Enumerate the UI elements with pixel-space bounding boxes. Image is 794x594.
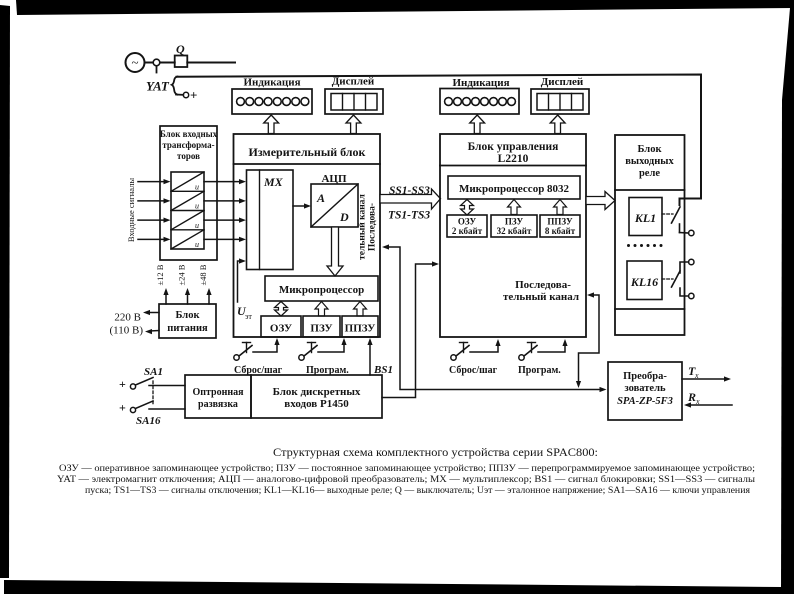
svg-text:±24 В: ±24 В bbox=[177, 264, 187, 285]
svg-text:SA1: SA1 bbox=[144, 366, 163, 378]
microprocessor 8032 box bbox=[448, 176, 580, 199]
svg-text:ОЗУ: ОЗУ bbox=[270, 323, 292, 335]
svg-text:Q: Q bbox=[176, 42, 185, 56]
contact KL16 bbox=[689, 259, 694, 264]
arrow up to Displej 1 bbox=[346, 115, 361, 134]
wire Rx in bbox=[689, 404, 732, 406]
double block arrow 8032-OZU bbox=[461, 200, 474, 216]
svg-text:зователь: зователь bbox=[624, 383, 666, 394]
transformer matrix bbox=[171, 172, 204, 249]
block arrow SS/TS to control unit bbox=[380, 189, 441, 209]
svg-text:АЦП: АЦП bbox=[321, 173, 347, 185]
svg-text:±48 В: ±48 В bbox=[198, 264, 208, 285]
svg-text:8 кбайт: 8 кбайт bbox=[545, 226, 576, 236]
pushbutton Reset/step (measuring) bbox=[234, 355, 239, 360]
svg-text:±12 В: ±12 В bbox=[155, 264, 165, 285]
svg-text:u: u bbox=[195, 183, 199, 192]
pushbutton Program (control) bbox=[519, 355, 524, 360]
block discrete inputs P1450 bbox=[251, 375, 382, 418]
svg-text:ППЗУ: ППЗУ bbox=[547, 217, 573, 227]
block transducer SPA-ZP-5F3 bbox=[608, 362, 682, 420]
wire Q to right bbox=[187, 62, 235, 64]
dots between relays bbox=[627, 244, 663, 247]
svg-text:тельный канал: тельный канал bbox=[503, 291, 579, 303]
reference voltage U_et feed bbox=[238, 261, 241, 302]
multiplexer MX bbox=[247, 170, 294, 270]
wire node to Q bbox=[160, 62, 175, 64]
wire YAT bottom terminal bbox=[176, 94, 183, 96]
svg-text:Преобра-: Преобра- bbox=[623, 371, 667, 382]
switch Q bbox=[175, 56, 188, 68]
svg-text:YAT: YAT bbox=[146, 79, 170, 94]
svg-text:торов: торов bbox=[177, 151, 200, 161]
svg-text:Оптронная: Оптронная bbox=[192, 387, 244, 398]
svg-text:L2210: L2210 bbox=[498, 153, 529, 165]
svg-text:32 кбайт: 32 кбайт bbox=[497, 226, 532, 236]
arrow up to Displej 2 bbox=[550, 115, 565, 134]
microprocessor box (measuring) bbox=[265, 276, 378, 301]
block optocoupler isolation bbox=[185, 375, 251, 418]
mechanical link dashed bbox=[152, 381, 154, 406]
wire YAT top rail bbox=[177, 75, 702, 206]
svg-text:Последова-: Последова- bbox=[368, 203, 378, 251]
svg-text:питания: питания bbox=[167, 323, 208, 334]
svg-text:выходных: выходных bbox=[625, 156, 674, 167]
svg-text:2 кбайт: 2 кбайт bbox=[452, 226, 483, 236]
wire discrete inputs to control unit bbox=[382, 264, 434, 398]
block power supply bbox=[159, 304, 216, 338]
svg-text:+: + bbox=[190, 88, 197, 103]
svg-text:u: u bbox=[195, 240, 199, 249]
svg-text:развязка: развязка bbox=[198, 399, 238, 410]
block arrow up 8032 from PZU bbox=[508, 200, 521, 215]
svg-text:Блок: Блок bbox=[638, 144, 663, 155]
relay KL16 bbox=[627, 261, 662, 300]
block arrow up to MCU from PPZU bbox=[354, 302, 367, 317]
svg-text:ПЗУ: ПЗУ bbox=[310, 323, 332, 335]
svg-text:пуска; TS1—TS3 — сигналы отклю: пуска; TS1—TS3 — сигналы отключения; KL1… bbox=[85, 486, 751, 496]
svg-text:SA16: SA16 bbox=[136, 415, 161, 427]
input arrows x4 bbox=[138, 179, 171, 242]
wire control unit serial to bus bbox=[587, 292, 594, 297]
svg-text:TS1-TS3: TS1-TS3 bbox=[388, 210, 430, 222]
svg-text:SPA-ZP-5F3: SPA-ZP-5F3 bbox=[617, 396, 673, 407]
block arrow ADC to MCU bbox=[327, 227, 343, 276]
svg-text:Дисплей: Дисплей bbox=[541, 76, 584, 88]
pushbutton Program (measuring) bbox=[299, 355, 304, 360]
svg-text:Блок входных: Блок входных bbox=[160, 129, 218, 139]
memory OZU 2k bbox=[447, 215, 487, 237]
memory PZU (measuring) bbox=[303, 316, 340, 337]
scan frame right strip bbox=[781, 8, 794, 594]
power outputs up x3 bbox=[165, 293, 167, 304]
mains input arrows bbox=[148, 312, 159, 314]
AC source G1 bbox=[126, 53, 145, 72]
transformer outputs to MX x4 bbox=[204, 179, 246, 242]
svg-text:YAT — электромагнит отключения: YAT — электромагнит отключения; АЦП — ан… bbox=[57, 474, 756, 485]
wire BS1 bbox=[369, 342, 371, 375]
arrow MX to ADC bbox=[293, 205, 306, 207]
memory PPZU (measuring) bbox=[342, 316, 378, 337]
svg-text:реле: реле bbox=[639, 168, 660, 179]
svg-text:Индикация: Индикация bbox=[452, 77, 509, 89]
contact KL1 bbox=[662, 213, 673, 215]
svg-text:220 В: 220 В bbox=[114, 312, 141, 324]
scan frame top bar bbox=[16, 0, 794, 15]
svg-text:ППЗУ: ППЗУ bbox=[345, 323, 376, 335]
double block arrow MCU-OZU bbox=[275, 302, 288, 317]
relay KL1 bbox=[629, 198, 662, 236]
block measuring unit bbox=[234, 134, 381, 337]
svg-text:тельный канал: тельный канал bbox=[357, 193, 368, 259]
wire serial: measuring unit to bus bbox=[382, 244, 389, 249]
block input transformers bbox=[160, 126, 217, 260]
block output relays bbox=[615, 135, 685, 335]
pushbutton Reset/step (control) bbox=[451, 355, 456, 360]
svg-text:Програм.: Програм. bbox=[518, 365, 561, 376]
memory PPZU 8k bbox=[540, 215, 580, 237]
arrow up to Indikacija 1 bbox=[264, 115, 279, 134]
svg-text:ОЗУ — оперативное запоминающее: ОЗУ — оперативное запоминающее устройств… bbox=[59, 463, 755, 474]
scan frame bottom bar bbox=[4, 580, 781, 594]
svg-text:Блок: Блок bbox=[176, 310, 201, 321]
svg-text:x: x bbox=[694, 371, 699, 380]
svg-text:Индикация: Индикация bbox=[243, 77, 300, 89]
svg-text:R: R bbox=[687, 390, 696, 404]
svg-text:Сброс/шаг: Сброс/шаг bbox=[449, 365, 498, 376]
svg-text:Последова-: Последова- bbox=[515, 279, 571, 291]
arrow up to Indikacija 2 bbox=[470, 115, 485, 134]
svg-text:u: u bbox=[195, 221, 199, 230]
svg-text:Блок управления: Блок управления bbox=[468, 141, 559, 153]
svg-text:u: u bbox=[195, 202, 199, 211]
svg-text:Микропроцессор 8032: Микропроцессор 8032 bbox=[459, 183, 570, 195]
svg-text:KL1: KL1 bbox=[634, 211, 656, 225]
svg-text:ОЗУ: ОЗУ bbox=[458, 217, 477, 227]
svg-text:Структурная схема комплектного: Структурная схема комплектного устройств… bbox=[273, 447, 598, 459]
svg-text:эт: эт bbox=[245, 312, 252, 321]
block arrow up 8032 from PPZU bbox=[554, 200, 567, 215]
scan frame left strip bbox=[0, 5, 10, 578]
memory PZU 32k bbox=[491, 215, 537, 237]
svg-text:трансформа-: трансформа- bbox=[162, 140, 214, 150]
svg-text:Дисплей: Дисплей bbox=[332, 76, 375, 88]
svg-text:входов Р1450: входов Р1450 bbox=[284, 398, 349, 410]
svg-text:KL16: KL16 bbox=[630, 275, 658, 289]
node terminal bbox=[153, 59, 160, 66]
block arrow control to relays bbox=[586, 192, 615, 210]
svg-text:MX: MX bbox=[263, 175, 284, 189]
svg-text:Измерительный блок: Измерительный блок bbox=[249, 145, 366, 159]
block arrow up to MCU from PZU bbox=[315, 302, 328, 317]
svg-text:~: ~ bbox=[131, 55, 138, 70]
svg-text:Блок дискретных: Блок дискретных bbox=[273, 386, 361, 398]
svg-text:Микропроцессор: Микропроцессор bbox=[279, 284, 364, 296]
svg-text:x: x bbox=[695, 397, 700, 406]
memory OZU (measuring) bbox=[261, 316, 301, 337]
svg-text:(110 В): (110 В) bbox=[109, 325, 143, 337]
wire source to node bbox=[145, 62, 154, 64]
svg-text:ПЗУ: ПЗУ bbox=[505, 217, 524, 227]
block control unit L2210 bbox=[440, 134, 586, 337]
wire Tx out bbox=[682, 378, 726, 380]
svg-text:A: A bbox=[316, 191, 325, 205]
svg-text:D: D bbox=[339, 210, 349, 224]
svg-text:+: + bbox=[119, 401, 126, 415]
svg-text:+: + bbox=[119, 377, 126, 391]
svg-text:Входные сигналы: Входные сигналы bbox=[126, 178, 136, 242]
